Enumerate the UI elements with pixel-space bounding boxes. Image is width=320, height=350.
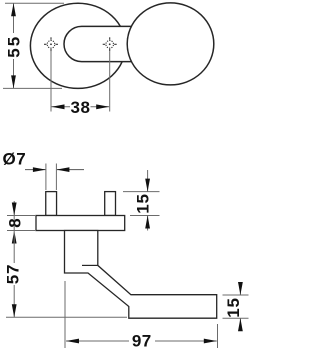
svg-text:15: 15: [224, 297, 243, 318]
svg-text:38: 38: [71, 98, 91, 117]
svg-text:8: 8: [5, 218, 24, 227]
svg-text:97: 97: [132, 332, 152, 350]
side view: left post: [46, 192, 57, 216]
dimension 97: arrows: [66, 339, 79, 344]
side view: bend crease: [82, 264, 98, 266]
dimension 15 bar: arrows: [238, 282, 243, 295]
center mark left: [44, 37, 58, 51]
dimension 55: arrows: [11, 3, 16, 16]
dimension 38: extension lines: [51, 51, 110, 112]
dimension 97: extension lines: [65, 281, 218, 348]
dimension 57: arrow: [12, 304, 17, 317]
side view: rose plate: [36, 216, 125, 231]
dimension 57: dimension line: [6, 231, 127, 318]
dimension 15 post: arrows: [145, 179, 150, 192]
svg-text:57: 57: [4, 264, 23, 285]
dimension 15 bar: extension lines: [223, 282, 249, 331]
svg-text:15: 15: [134, 193, 153, 214]
dimension 8: arrows: [12, 203, 17, 216]
svg-text:55: 55: [4, 35, 23, 58]
side view: right post: [105, 192, 116, 216]
dimension O7: lines: [25, 169, 84, 171]
top view: knob circle: [127, 3, 214, 85]
side view: lever outline: [65, 231, 217, 319]
dimension 38: arrows: [52, 104, 65, 109]
top view: grip slot: [64, 26, 136, 61]
dimension O7: arrows: [33, 167, 46, 172]
svg-text:Ø7: Ø7: [3, 149, 27, 168]
center mark right: [103, 37, 117, 51]
dimension 15 post: extension lines: [123, 170, 160, 231]
dimension 55: extension lines: [3, 3, 64, 88]
top view: rose circle Ø55: [30, 3, 125, 88]
dimension 8: extension lines: [7, 201, 35, 231]
